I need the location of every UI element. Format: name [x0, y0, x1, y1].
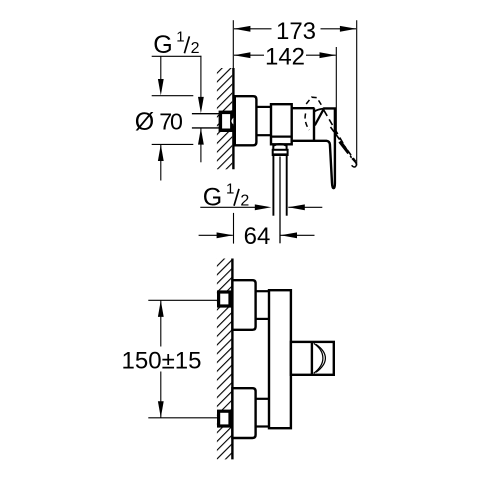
- cartridge divider: [313, 108, 315, 141]
- svg-text:G: G: [153, 31, 172, 59]
- cartridge housing top edge left: [292, 107, 315, 109]
- dimension 150±15 extension lines: [148, 300, 217, 418]
- dashed swing line 1: [324, 110, 352, 158]
- label G 1/2 (upper) leader line: [152, 56, 204, 114]
- dashed lever raised tip: [306, 97, 323, 108]
- valve body bottom line: [271, 136, 292, 138]
- body column (front view): [269, 290, 291, 428]
- extension line right for 142: [335, 47, 337, 135]
- dimension 150±15 line and arrows: [158, 300, 164, 418]
- dimension 142 line: [234, 52, 336, 58]
- escutcheon bottom (front view): [232, 388, 255, 438]
- svg-text:Ø: Ø: [135, 108, 154, 136]
- inlet square bottom (front view): [219, 411, 230, 426]
- svg-text:142: 142: [265, 43, 305, 70]
- inlet square top (front view): [219, 292, 230, 306]
- wall hatch (lower): [217, 259, 232, 460]
- label G 1/2 (lower, hose thread): [203, 181, 250, 212]
- svg-text:2: 2: [191, 40, 200, 57]
- inlet seat arc: [231, 117, 234, 126]
- handle lens arc inner: [316, 344, 325, 372]
- extension line left (wall, for 173/142): [232, 20, 234, 68]
- handle cone diagonal: [315, 109, 324, 126]
- escutcheon top (front view): [232, 280, 255, 330]
- wall inlet square (side view): [220, 112, 232, 130]
- G 1/2 (lower) leader with arrows: [200, 204, 322, 210]
- svg-text:0: 0: [170, 109, 183, 135]
- dimension 64 arrows: [199, 232, 315, 238]
- label G 1/2 (upper): [153, 29, 199, 59]
- outlet collar (domed): [273, 144, 286, 150]
- wall face line (lower): [231, 259, 233, 460]
- wall hatch (upper): [217, 68, 232, 169]
- svg-text:173: 173: [276, 18, 316, 45]
- neck bottom (front view): [256, 399, 269, 427]
- svg-text:1: 1: [176, 29, 184, 46]
- wall face line (upper): [232, 68, 234, 169]
- cartridge housing and lever (side view): [292, 108, 335, 188]
- handle (front view): [291, 342, 334, 375]
- handle divider: [311, 342, 313, 375]
- dimension 64 extension line (wall): [233, 213, 235, 244]
- dashed swing line 2: [331, 127, 356, 162]
- neck top (front view): [256, 291, 269, 319]
- dimension Ø70 extension lines: [152, 96, 194, 145]
- outlet nut: [272, 150, 288, 155]
- shower hose pipe: [273, 156, 286, 216]
- svg-text:150±15: 150±15: [122, 348, 202, 375]
- valve body (side view): [271, 104, 292, 144]
- extension line right for 173: [356, 20, 358, 165]
- dimension Ø70 arrows: [158, 56, 164, 180]
- handle cone arc: [314, 109, 324, 112]
- pipe centerline: [279, 157, 281, 244]
- neck (side view): [256, 107, 271, 135]
- svg-text:64: 64: [244, 223, 271, 250]
- escutcheon (side view): [235, 96, 257, 145]
- svg-text:1: 1: [226, 181, 234, 198]
- handle lens arc outer: [314, 343, 323, 373]
- dimension 173 line: [234, 26, 357, 32]
- inlet thread size extension lines: [192, 114, 220, 128]
- dashed cone arc: [305, 113, 309, 130]
- G 1/2 (upper) lower arrow and tail: [198, 128, 204, 162]
